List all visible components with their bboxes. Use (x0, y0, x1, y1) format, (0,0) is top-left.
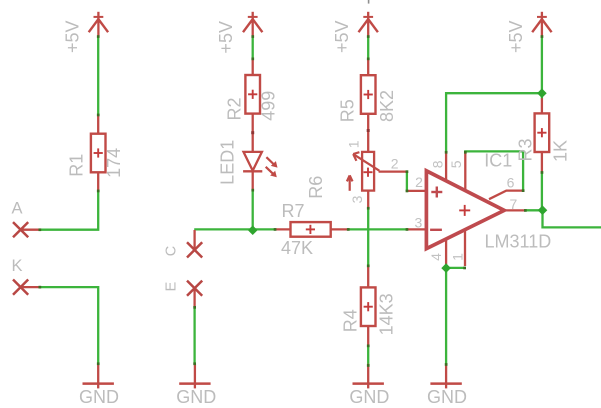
node C pin stub (193, 230, 195, 250)
node K X mark (13, 280, 28, 295)
ground symbol (column R4) (353, 364, 384, 389)
+5V supply symbol (column R1) (89, 12, 108, 37)
svg-text:A: A (11, 200, 22, 218)
ground symbol (column IC1) (430, 364, 461, 389)
resistor R3 top pin (541, 98, 543, 113)
+5V supply symbol (column R3) (532, 12, 551, 37)
resistor R2 bottom pin / LED1 top pin (252, 114, 254, 153)
svg-text:14K3: 14K3 (377, 293, 397, 335)
svg-text:C: C (163, 246, 179, 256)
op-amp IC1 pin 6 stub (489, 191, 523, 200)
svg-text:R5: R5 (338, 99, 358, 122)
junction +5V rail R3 (537, 88, 547, 98)
node E X mark (187, 281, 202, 296)
+5V supply symbol (column R5) (359, 12, 378, 37)
svg-text:7: 7 (510, 196, 518, 212)
svg-text:GND: GND (349, 387, 389, 407)
wire op-amp output to edge (525, 210, 601, 227)
wire R7 to op-amp pin 3 (348, 228, 407, 230)
svg-text:6: 6 (507, 175, 515, 191)
value 8K2 (377, 90, 397, 122)
svg-text:1K: 1K (551, 140, 571, 162)
resistor R7 (291, 222, 331, 237)
pin number 8 (op-amp) (429, 160, 445, 168)
+5V label (column R1) (62, 20, 82, 53)
resistor R2 (245, 75, 260, 114)
svg-text:GND: GND (427, 387, 467, 407)
resistor R4 bottom pin (367, 326, 369, 346)
svg-text:R4: R4 (340, 309, 360, 332)
junction output node (538, 205, 548, 215)
svg-text:R1: R1 (67, 154, 87, 177)
junction op-amp ground (441, 263, 451, 273)
wire R1 to node A (40, 191, 99, 230)
+5V label (column R2) (216, 21, 236, 54)
svg-text:4: 4 (428, 253, 444, 261)
svg-text:174: 174 (104, 148, 124, 178)
pin number 5 (op-amp) (448, 160, 464, 168)
wire op-amp pin 5 to pin 6 (465, 151, 523, 190)
svg-text:GND: GND (79, 387, 119, 407)
svg-text:8K2: 8K2 (377, 90, 397, 122)
label R4 (340, 309, 360, 332)
wire R4 to GND (367, 345, 369, 365)
resistor R4 (361, 287, 376, 326)
wire LED1 to junction (252, 190, 254, 230)
wire op-amp pin 8 to +5V rail (446, 93, 542, 152)
svg-text:2: 2 (391, 156, 399, 172)
resistor R4 top pin (367, 266, 369, 288)
svg-text:R2: R2 (225, 97, 245, 120)
wire trimmer wiper to op-amp pin 2 (406, 172, 408, 192)
pin joint dot R5-R6 (367, 129, 370, 132)
wire node E to GND (193, 307, 195, 364)
+5V label (column R5) (332, 20, 352, 53)
resistor R5 (361, 75, 376, 114)
stray frame text fragment above +5V (368, 0, 370, 4)
label R2 (225, 97, 245, 120)
node A pin stub (21, 229, 40, 231)
node K pin stub (21, 286, 40, 288)
pin number 3 (trimmer) (349, 195, 365, 203)
op-amp IC1 pin 2 stub (407, 190, 426, 192)
resistor R3 (535, 113, 550, 152)
op-amp IC1 body (426, 171, 504, 249)
trimmer R6 bottom pin 3 (367, 191, 369, 209)
op-amp IC1 pin 8 stub (445, 152, 447, 182)
trimmer R6 body (362, 152, 374, 191)
trimmer R6 adjust arrow (347, 175, 353, 190)
resistor R5 bottom pin / trimmer pin 1 (367, 114, 369, 152)
wire +5V to R3 (541, 36, 543, 98)
op-amp IC1 pin 4 stub (445, 238, 447, 265)
svg-text:47K: 47K (281, 238, 313, 258)
op-amp IC1 pin 5 stub (464, 152, 466, 192)
wire +5V to R2 (252, 36, 254, 59)
resistor R3 bottom pin (541, 152, 543, 173)
resistor R2 top pin (252, 59, 254, 75)
wire trimmer to R4 (367, 208, 369, 266)
svg-text:5: 5 (448, 160, 464, 168)
svg-text:1: 1 (346, 140, 362, 148)
svg-text:+5V: +5V (62, 20, 82, 53)
resistor R7 left pin (275, 228, 291, 230)
value 499 (258, 91, 278, 121)
ground symbol (column R1) (83, 364, 114, 389)
svg-text:LED1: LED1 (218, 140, 238, 185)
value 1K (551, 140, 571, 162)
pin number 1 (trimmer) (346, 140, 362, 148)
svg-text:+5V: +5V (506, 20, 526, 53)
wire node K to GND (40, 287, 99, 364)
+5V label (column R3) (506, 20, 526, 53)
value 174 (104, 148, 124, 178)
label C (163, 246, 179, 256)
pin number 1 (op-amp) (449, 253, 465, 261)
value 14K3 (377, 293, 397, 335)
connection dots (wire/pin joints) (39, 35, 544, 367)
svg-text:+5V: +5V (216, 21, 236, 54)
wire node C to R7 (194, 228, 275, 230)
wire +5V to R1 (97, 36, 99, 115)
label R3 (515, 138, 535, 161)
resistor R5 top pin (367, 59, 369, 75)
op-amp IC1 pin 7 stub (504, 209, 525, 211)
op-amp IC1 pin 3 stub (407, 228, 426, 230)
wire R3 to output junction (541, 172, 543, 210)
wire op-amp pin 1 to pin 4 junction (446, 267, 465, 269)
resistor R7 right pin (331, 228, 349, 230)
junction LED1/C/R7 (248, 225, 258, 235)
trimmer R6 wiper diagonal with arrowhead (353, 152, 379, 171)
ground symbol (column E) (179, 364, 210, 389)
svg-text:+5V: +5V (332, 20, 352, 53)
svg-text:R3: R3 (515, 138, 535, 161)
wire +5V to R5 (367, 36, 369, 59)
svg-text:3: 3 (349, 195, 365, 203)
label R1 (67, 154, 87, 177)
svg-text:R6: R6 (306, 176, 326, 199)
node E pin stub (193, 288, 195, 307)
label R6 (306, 176, 326, 199)
op-amp IC1 pin 1 stub (464, 230, 466, 266)
svg-text:IC1: IC1 (484, 151, 512, 171)
resistor R1 pins (97, 115, 99, 191)
svg-text:3: 3 (415, 215, 423, 231)
+5V supply symbol (column R2) (243, 12, 262, 37)
op-amp plus input marker (431, 187, 442, 198)
LED1 bottom pin (252, 171, 254, 190)
wire op-amp pins 1,4 to GND (445, 268, 447, 364)
pin joint dot R2-LED1 (251, 131, 254, 134)
label E (163, 281, 179, 291)
svg-text:1: 1 (449, 253, 465, 261)
svg-text:E: E (163, 281, 179, 291)
op-amp minus input marker (430, 229, 442, 231)
op-amp origin cross (459, 205, 470, 216)
pin number 4 (op-amp) (428, 253, 444, 261)
node C X mark (187, 242, 202, 257)
LED LED1 (243, 152, 277, 177)
resistor R1 (91, 134, 106, 173)
label LED1 (218, 140, 238, 185)
trimmer wiper pin 2 lead (379, 170, 407, 172)
svg-text:2: 2 (415, 174, 423, 190)
svg-text:8: 8 (429, 160, 445, 168)
label R5 (338, 99, 358, 122)
svg-text:R7: R7 (282, 201, 305, 221)
svg-text:499: 499 (258, 91, 278, 121)
node A X mark (13, 222, 28, 237)
svg-text:K: K (11, 257, 22, 275)
svg-text:GND: GND (176, 387, 216, 407)
svg-text:LM311D: LM311D (485, 232, 552, 252)
